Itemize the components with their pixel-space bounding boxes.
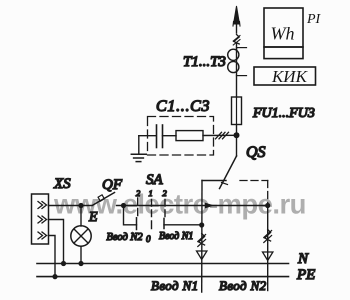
- wire contact 2 to bus N: [49, 220, 64, 264]
- node lamp tap: [78, 203, 83, 208]
- current transformer T1...T3: [228, 49, 239, 60]
- wire cable riser Ввод N2: [267, 206, 269, 291]
- QS fixed contact line: [202, 180, 226, 182]
- wire plates to resistor: [163, 135, 177, 137]
- line break mark on capacitor wire: [216, 132, 229, 139]
- svg-text:QS: QS: [246, 144, 266, 161]
- node junction with capacitor branch: [234, 132, 240, 138]
- arrow on main wire: [205, 203, 213, 208]
- svg-text:QF: QF: [102, 177, 123, 193]
- svg-text:SA: SA: [146, 172, 164, 188]
- ground: [138, 136, 140, 155]
- line break mark on cable N1: [199, 234, 205, 246]
- wire fuse to QS: [236, 125, 238, 157]
- wire lamp to bus N: [80, 246, 82, 263]
- svg-text:XS: XS: [53, 176, 71, 192]
- SA jaw left: [136, 218, 138, 230]
- wire contact 3 to bus PE: [49, 236, 56, 277]
- svg-text:1: 1: [149, 188, 153, 198]
- line break mark on cable N2: [265, 230, 271, 242]
- wire riser top: [236, 43, 238, 49]
- svg-text:Wh: Wh: [271, 24, 295, 44]
- bus N: [37, 263, 289, 265]
- SA contact wire left: [124, 206, 137, 225]
- QF latch square: [98, 195, 104, 201]
- bus PE: [37, 276, 289, 278]
- socket contact 3: [38, 232, 47, 239]
- line break mark on riser: [234, 35, 239, 45]
- SA position line right (dashed): [164, 200, 166, 217]
- SA jaw right: [163, 218, 165, 228]
- SA position line left (dashed): [137, 198, 139, 216]
- QS blade tick: [222, 183, 228, 185]
- wire main line to lamp: [80, 206, 82, 227]
- node QF to SA: [121, 203, 126, 208]
- svg-text:C1...C3: C1...C3: [156, 98, 210, 115]
- main distribution wire: [49, 205, 93, 207]
- fuse FU1...FU3: [232, 97, 242, 125]
- socket XS box: [32, 194, 49, 244]
- meter Wh: [264, 8, 303, 47]
- breaker QF blade: [93, 193, 115, 206]
- capacitor plates: [156, 125, 158, 148]
- svg-text:КИК: КИК: [271, 67, 309, 86]
- svg-text:Ввод N2: Ввод N2: [107, 232, 144, 243]
- wire resistor to riser: [203, 134, 237, 136]
- svg-text:PI: PI: [306, 12, 322, 27]
- supply arrow: [236, 23, 238, 33]
- QS alternate position (dashed): [240, 180, 268, 182]
- switch QS blade: [220, 156, 237, 189]
- svg-text:E: E: [88, 210, 98, 225]
- lamp E: [71, 226, 91, 246]
- SA contact wire right: [164, 224, 202, 226]
- node SA line joins cable N2: [265, 203, 270, 208]
- cable head triangle N1: [197, 251, 207, 260]
- wire riser through CTs to fuse: [236, 49, 238, 97]
- resistor block: [176, 131, 203, 141]
- svg-text:Ввод N1: Ввод N1: [159, 231, 193, 242]
- socket contact 1: [38, 202, 47, 209]
- svg-text:Ввод N2: Ввод N2: [219, 278, 267, 293]
- svg-text:PE: PE: [296, 267, 315, 283]
- box КИК: [254, 67, 316, 85]
- SA position line middle (dashed): [151, 200, 153, 229]
- svg-text:0: 0: [146, 234, 151, 244]
- node on bus N: [61, 261, 66, 266]
- node on bus PE: [52, 274, 57, 279]
- wire cable riser Ввод N1: [201, 181, 203, 293]
- cable head triangle N2: [263, 252, 273, 261]
- node lamp on bus N: [78, 261, 83, 266]
- socket contact 2: [38, 216, 47, 223]
- svg-text:Ввод N1: Ввод N1: [151, 278, 199, 293]
- svg-text:T1...T3: T1...T3: [183, 54, 226, 70]
- dashed enclosure C1...C3: [148, 117, 214, 156]
- wire ground to capacitor: [139, 135, 156, 137]
- svg-text:FU1...FU3: FU1...FU3: [252, 106, 315, 121]
- svg-text:N: N: [297, 251, 309, 267]
- node on cable N1: [199, 222, 204, 227]
